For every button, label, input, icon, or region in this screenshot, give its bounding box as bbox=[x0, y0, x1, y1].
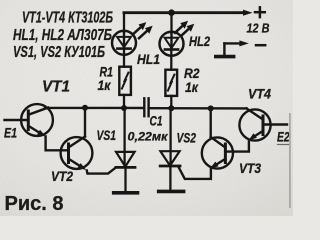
svg-text:VS1, VS2 КУ101Б: VS1, VS2 КУ101Б bbox=[13, 44, 105, 61]
wire: VT2 collector to mid rail bbox=[84, 108, 86, 137]
wire: HL1 cathode to R1 bbox=[123, 49, 125, 67]
label: - sign bbox=[256, 44, 265, 47]
wire: mid rail left segment (VT1 collector to C1) bbox=[45, 107, 144, 109]
label: + sign bbox=[255, 7, 265, 17]
transistor VT2 bbox=[61, 137, 93, 173]
terminal: minus lead with foot bar bbox=[216, 40, 249, 56]
wire: HL2 cathode to R2 bbox=[170, 50, 172, 70]
underline mark below E2 bbox=[278, 144, 290, 146]
capacitor C1 bbox=[144, 98, 148, 116]
junction: top rail / HL2 branch bbox=[168, 9, 175, 16]
svg-text:1к: 1к bbox=[98, 78, 112, 93]
wire: R1 to mid rail bbox=[123, 95, 125, 108]
svg-text:1к: 1к bbox=[185, 80, 199, 95]
transistor VT3 bbox=[202, 137, 233, 171]
wire: R2 to mid rail bbox=[170, 96, 172, 108]
LED HL1 bbox=[112, 31, 136, 55]
thyristor VS1 bbox=[116, 152, 135, 191]
terminal: +12V arrow bbox=[243, 10, 253, 16]
svg-text:Е1: Е1 bbox=[4, 124, 17, 140]
resistor R2 bbox=[165, 70, 177, 96]
svg-text:VS1: VS1 bbox=[97, 127, 117, 143]
wire: VT1 emitter to VT2 base bbox=[46, 136, 69, 150]
wire: VT3 collector to mid rail bbox=[209, 108, 211, 137]
transistor VT1 bbox=[21, 104, 53, 139]
svg-text:VT2: VT2 bbox=[51, 168, 73, 184]
svg-text:VT3: VT3 bbox=[239, 160, 261, 176]
scan artifact: right edge line bbox=[289, 113, 291, 208]
svg-text:VT1-VT4 КТ3102Б: VT1-VT4 КТ3102Б bbox=[22, 9, 113, 26]
terminal: VS2 cathode foot bar bbox=[159, 190, 184, 194]
wire: VS2 anode from mid rail bbox=[169, 108, 171, 165]
wire: VS2 gate to VT3 emitter bbox=[178, 166, 211, 179]
svg-text:VT4: VT4 bbox=[248, 85, 271, 101]
svg-text:0,22мк: 0,22мк bbox=[128, 130, 169, 144]
svg-text:HL1: HL1 bbox=[137, 51, 160, 67]
HL1 emission arrows bbox=[133, 22, 153, 38]
svg-text:R2: R2 bbox=[184, 66, 200, 81]
junction: R2-VS2 / mid rail bbox=[168, 105, 174, 111]
thyristor VS2 bbox=[160, 151, 180, 190]
wire: top +12V rail bbox=[124, 11, 244, 14]
wire: mid rail right segment (C1 to VT4 collector) bbox=[149, 107, 247, 110]
wire: VS1 anode from mid rail bbox=[123, 108, 125, 167]
wire: VT2 emitter to VS1 gate bbox=[87, 167, 116, 173]
wire: VT4 emitter to VT3 base bbox=[225, 142, 249, 152]
LED HL2 bbox=[160, 32, 184, 56]
HL2 emission arrows bbox=[175, 21, 194, 36]
svg-text:HL1, HL2 АЛ307Б: HL1, HL2 АЛ307Б bbox=[13, 27, 112, 44]
svg-text:С1: С1 bbox=[150, 113, 163, 128]
wire: rail to HL1 anode bbox=[123, 13, 125, 32]
junction: VT2 collector / mid rail bbox=[82, 105, 88, 111]
svg-text:Е2: Е2 bbox=[277, 128, 290, 144]
junction: VT3 collector / mid rail bbox=[208, 105, 214, 111]
transistor VT4 bbox=[239, 108, 270, 142]
svg-text:VT1: VT1 bbox=[42, 79, 70, 96]
wire: rail to HL2 anode bbox=[170, 13, 172, 33]
svg-text:VS2: VS2 bbox=[177, 130, 197, 146]
junction: R1-VS1 / mid rail bbox=[121, 105, 127, 111]
terminal: VS1 cathode foot bar bbox=[114, 191, 138, 195]
svg-text:HL2: HL2 bbox=[189, 33, 210, 49]
terminal E1 lead bbox=[5, 119, 29, 121]
svg-text:12 В: 12 В bbox=[247, 21, 270, 36]
terminal E2 lead bbox=[263, 123, 287, 125]
resistor R1 bbox=[119, 67, 131, 95]
svg-text:Рис. 8: Рис. 8 bbox=[5, 192, 64, 215]
